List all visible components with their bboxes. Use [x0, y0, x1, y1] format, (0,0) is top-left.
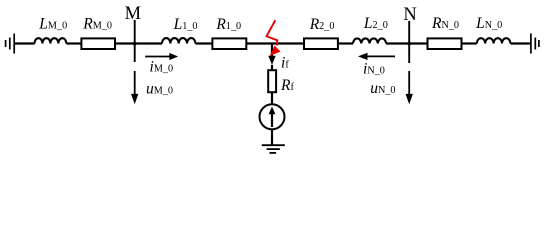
svg-text:LM_0: LM_0	[38, 15, 67, 32]
svg-text:N: N	[403, 5, 416, 25]
svg-text:R2_0: R2_0	[309, 16, 335, 33]
svg-text:if: if	[281, 55, 289, 72]
svg-text:Rf: Rf	[280, 77, 294, 94]
svg-text:M: M	[125, 4, 141, 24]
svg-text:iM_0: iM_0	[150, 59, 174, 76]
svg-text:iN_0: iN_0	[363, 60, 385, 77]
svg-text:RN_0: RN_0	[431, 15, 459, 32]
svg-text:L2_0: L2_0	[363, 15, 388, 32]
svg-text:L1_0: L1_0	[173, 16, 198, 33]
svg-text:RM_0: RM_0	[82, 15, 112, 32]
svg-text:R1_0: R1_0	[215, 16, 241, 33]
svg-text:uN_0: uN_0	[370, 80, 395, 97]
svg-text:LN_0: LN_0	[475, 15, 502, 32]
svg-text:uM_0: uM_0	[146, 81, 173, 98]
